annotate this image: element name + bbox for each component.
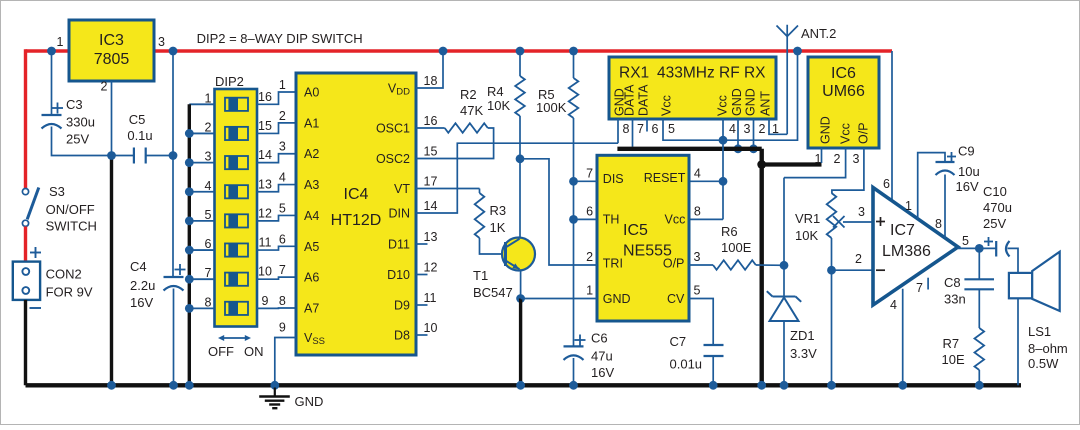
svg-text:DIP2: DIP2 (215, 74, 244, 89)
svg-text:16V: 16V (956, 179, 979, 194)
svg-text:T1: T1 (473, 268, 488, 283)
svg-text:4: 4 (890, 298, 897, 312)
svg-text:8: 8 (694, 205, 701, 219)
svg-text:25V: 25V (66, 132, 89, 147)
svg-text:6: 6 (883, 177, 890, 191)
svg-text:6: 6 (205, 237, 212, 251)
svg-text:CON2: CON2 (46, 267, 82, 282)
svg-text:GND: GND (744, 88, 758, 116)
svg-text:47K: 47K (460, 103, 483, 118)
svg-text:3: 3 (853, 152, 860, 166)
svg-text:D10: D10 (387, 268, 410, 282)
svg-text:RESET: RESET (644, 171, 686, 185)
svg-text:5: 5 (279, 201, 286, 215)
svg-text:DIS: DIS (603, 172, 624, 186)
svg-text:A4: A4 (304, 209, 319, 223)
svg-text:11: 11 (424, 291, 437, 305)
svg-text:TRI: TRI (603, 256, 623, 270)
svg-text:5: 5 (205, 208, 212, 222)
svg-text:2: 2 (855, 252, 862, 266)
svg-text:7: 7 (586, 167, 593, 181)
svg-text:10: 10 (424, 321, 438, 335)
svg-text:11: 11 (259, 236, 272, 250)
svg-text:7: 7 (916, 281, 923, 295)
svg-text:1: 1 (205, 91, 212, 105)
svg-text:1: 1 (57, 35, 64, 49)
svg-text:D9: D9 (394, 299, 410, 313)
svg-text:A1: A1 (304, 116, 319, 130)
svg-text:2: 2 (279, 109, 286, 123)
svg-text:4: 4 (694, 167, 701, 181)
svg-text:8: 8 (205, 295, 212, 309)
svg-text:A7: A7 (304, 302, 319, 316)
svg-text:1K: 1K (490, 220, 506, 235)
svg-text:GND: GND (819, 116, 833, 144)
svg-text:17: 17 (424, 175, 438, 189)
svg-text:R7: R7 (943, 336, 960, 351)
svg-text:C5: C5 (129, 112, 146, 127)
svg-text:1: 1 (905, 199, 912, 213)
svg-text:C10: C10 (983, 184, 1007, 199)
svg-text:R3: R3 (490, 203, 507, 218)
svg-text:Vcc: Vcc (716, 95, 730, 116)
svg-text:O/P: O/P (857, 122, 871, 144)
svg-text:3: 3 (205, 150, 212, 164)
svg-text:GND: GND (730, 88, 744, 116)
svg-text:2: 2 (759, 122, 766, 136)
svg-text:2: 2 (205, 120, 212, 134)
svg-text:IC6: IC6 (831, 65, 856, 82)
svg-text:TH: TH (603, 213, 620, 227)
svg-text:0.5W: 0.5W (1028, 356, 1059, 371)
svg-text:6: 6 (652, 122, 659, 136)
svg-text:A0: A0 (304, 86, 319, 100)
svg-text:IC7: IC7 (890, 222, 915, 239)
svg-text:6: 6 (586, 205, 593, 219)
svg-text:14: 14 (424, 199, 438, 213)
svg-text:Vcc: Vcc (839, 123, 853, 144)
svg-text:DATA: DATA (637, 84, 651, 116)
svg-text:8: 8 (279, 294, 286, 308)
svg-text:BC547: BC547 (473, 285, 513, 300)
svg-text:33n: 33n (944, 292, 966, 307)
svg-text:ON/OFF: ON/OFF (46, 202, 95, 217)
svg-text:VR1: VR1 (795, 211, 820, 226)
svg-text:SWITCH: SWITCH (46, 219, 97, 234)
svg-text:4: 4 (279, 171, 286, 185)
svg-text:14: 14 (258, 148, 272, 162)
svg-text:330u: 330u (66, 115, 95, 130)
svg-text:3: 3 (158, 35, 165, 49)
svg-text:C8: C8 (944, 275, 961, 290)
svg-text:D8: D8 (394, 329, 410, 343)
svg-text:7: 7 (279, 263, 286, 277)
svg-text:16V: 16V (591, 365, 614, 380)
svg-text:GND: GND (295, 394, 324, 409)
svg-text:ANT.2: ANT.2 (801, 26, 836, 41)
svg-text:5: 5 (962, 234, 969, 248)
svg-text:47u: 47u (591, 349, 613, 364)
svg-text:8: 8 (935, 217, 942, 231)
svg-text:R2: R2 (460, 87, 477, 102)
svg-text:A5: A5 (304, 240, 319, 254)
svg-text:DIP2 = 8–WAY DIP SWITCH: DIP2 = 8–WAY DIP SWITCH (197, 31, 363, 46)
svg-text:16: 16 (258, 90, 272, 104)
svg-text:2: 2 (101, 80, 108, 94)
svg-text:3.3V: 3.3V (790, 346, 817, 361)
svg-text:C3: C3 (66, 97, 83, 112)
svg-text:3: 3 (858, 205, 865, 219)
svg-text:433MHz RF RX: 433MHz RF RX (657, 65, 766, 82)
svg-text:C9: C9 (958, 144, 975, 159)
svg-text:4: 4 (205, 179, 212, 193)
svg-text:C6: C6 (591, 331, 608, 346)
svg-text:10K: 10K (795, 228, 818, 243)
svg-text:16V: 16V (130, 295, 153, 310)
svg-text:100E: 100E (721, 240, 752, 255)
svg-text:O/P: O/P (663, 256, 685, 270)
svg-text:3: 3 (744, 122, 751, 136)
svg-text:10E: 10E (942, 352, 965, 367)
svg-text:GND: GND (603, 292, 631, 306)
svg-text:100K: 100K (536, 100, 567, 115)
svg-text:12: 12 (424, 261, 438, 275)
svg-text:8–ohm: 8–ohm (1028, 341, 1068, 356)
svg-text:7: 7 (205, 266, 212, 280)
svg-text:LS1: LS1 (1028, 324, 1051, 339)
svg-text:470u: 470u (983, 200, 1012, 215)
svg-text:C4: C4 (130, 259, 147, 274)
svg-text:3: 3 (279, 140, 286, 154)
svg-text:OFF: OFF (208, 344, 234, 359)
svg-text:UM66: UM66 (822, 83, 865, 100)
svg-text:DATA: DATA (623, 84, 637, 116)
svg-text:FOR 9V: FOR 9V (46, 285, 93, 300)
svg-text:10K: 10K (487, 98, 510, 113)
svg-text:C7: C7 (670, 334, 687, 349)
svg-text:7805: 7805 (94, 51, 130, 68)
svg-text:10u: 10u (958, 164, 980, 179)
svg-text:VT: VT (394, 182, 410, 196)
svg-text:D11: D11 (388, 238, 410, 252)
svg-text:R4: R4 (487, 84, 504, 99)
svg-text:3: 3 (694, 250, 701, 264)
svg-text:A6: A6 (304, 271, 319, 285)
svg-text:IC4: IC4 (344, 186, 369, 203)
svg-text:1: 1 (815, 152, 822, 166)
svg-text:0.01u: 0.01u (670, 357, 703, 372)
svg-text:1: 1 (586, 284, 593, 298)
svg-text:12: 12 (258, 206, 272, 220)
svg-text:2: 2 (834, 152, 841, 166)
svg-text:IC5: IC5 (623, 222, 648, 239)
svg-text:2.2u: 2.2u (130, 278, 155, 293)
svg-text:ANT: ANT (759, 91, 773, 116)
svg-text:1: 1 (279, 78, 286, 92)
svg-text:R6: R6 (721, 224, 738, 239)
svg-text:RX1: RX1 (619, 65, 649, 82)
svg-text:A2: A2 (304, 147, 319, 161)
svg-text:ZD1: ZD1 (790, 328, 815, 343)
svg-text:0.1u: 0.1u (127, 128, 152, 143)
svg-text:OSC2: OSC2 (376, 152, 410, 166)
svg-text:IC3: IC3 (99, 32, 124, 49)
svg-text:S3: S3 (49, 184, 65, 199)
svg-text:5: 5 (668, 122, 675, 136)
svg-text:Vcc: Vcc (660, 95, 674, 116)
svg-text:18: 18 (424, 74, 438, 88)
svg-text:16: 16 (424, 114, 438, 128)
svg-text:DIN: DIN (388, 207, 410, 221)
svg-text:9: 9 (262, 294, 269, 308)
svg-text:10: 10 (258, 265, 272, 279)
svg-text:9: 9 (279, 321, 286, 335)
svg-text:13: 13 (258, 177, 272, 191)
svg-text:25V: 25V (983, 216, 1006, 231)
svg-text:A3: A3 (304, 178, 319, 192)
svg-text:Vcc: Vcc (665, 213, 686, 227)
svg-text:ON: ON (244, 344, 264, 359)
svg-text:15: 15 (258, 119, 272, 133)
svg-text:2: 2 (586, 250, 593, 264)
svg-text:15: 15 (424, 145, 438, 159)
svg-text:7: 7 (637, 122, 644, 136)
svg-text:5: 5 (694, 284, 701, 298)
svg-text:LM386: LM386 (882, 243, 931, 260)
svg-text:HT12D: HT12D (331, 212, 382, 229)
svg-text:CV: CV (667, 292, 685, 306)
svg-text:8: 8 (623, 122, 630, 136)
svg-text:13: 13 (424, 230, 438, 244)
svg-text:6: 6 (279, 232, 286, 246)
svg-text:OSC1: OSC1 (376, 122, 410, 136)
svg-text:4: 4 (729, 122, 736, 136)
